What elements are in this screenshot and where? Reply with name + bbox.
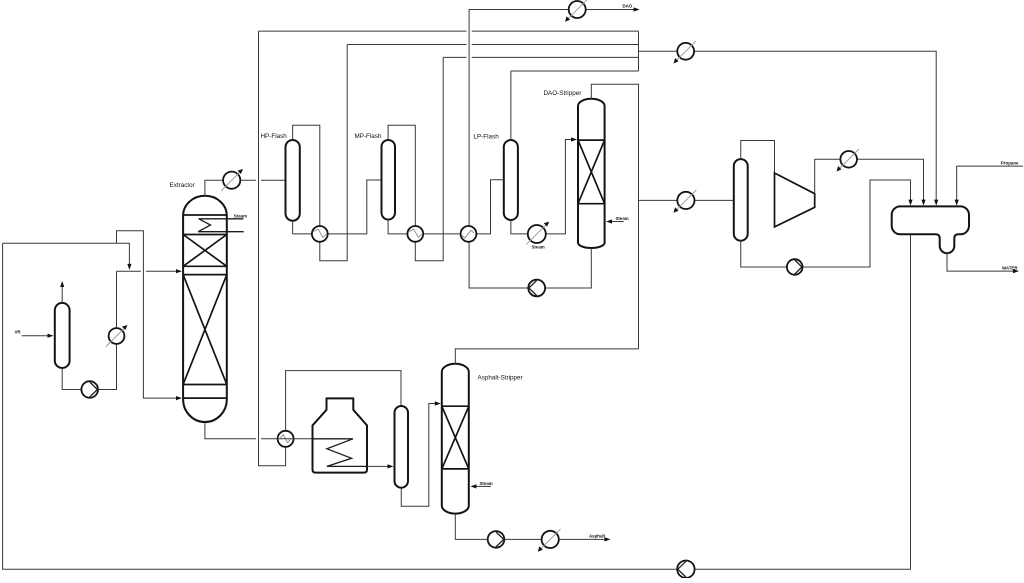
svg-text:Steam: Steam (234, 213, 247, 218)
vessel Extractor column (183, 196, 227, 422)
wire header line 2 (gap at x=469.1) (347, 44, 638, 46)
wire MP liquid to LP-Flash (388, 180, 504, 234)
svg-text:DAO: DAO (623, 4, 633, 9)
vessel LP-Flash drum (504, 140, 518, 220)
svg-text:HP-Flash: HP-Flash (261, 133, 288, 140)
vessel compressor suction drum (734, 159, 748, 241)
wire combined solvent vapor to separator (639, 51, 939, 205)
wire header line 4 (511, 70, 639, 72)
wire DAO-Stripper steam inlet (606, 219, 624, 223)
svg-text:Steam: Steam (532, 244, 545, 249)
component extractor internal steam coil with stubs (198, 219, 244, 232)
wire LP vapor riser to header 4 (510, 71, 512, 140)
wire jog over to extractor lower feed (117, 231, 183, 401)
vessel asphalt flash drum (395, 406, 409, 488)
heat-exchanger C12 asphalt cooler (538, 529, 561, 552)
wire solvent vapor vertical x=258.5 to asphalt-drum exchanger (259, 31, 402, 466)
wire suction drum overhead to compressor (741, 141, 775, 174)
wire solvent recycle loop left side and bottom (3, 234, 911, 569)
heat-exchanger C8 DAO product cooler (565, 0, 588, 22)
heat-exchanger C1 HP interchanger (312, 226, 328, 242)
vessel VR feed drum (55, 303, 70, 368)
heat-exchanger C4 LP steam heater (526, 222, 549, 245)
wire Asphalt-Stripper overhead to vapor header (455, 349, 638, 364)
compressor K1 (775, 173, 815, 227)
wire LP liquid through steam heater to DAO-Stripper feed (511, 137, 577, 234)
pump P1 VR pump (81, 381, 98, 398)
vessel DAO-Stripper column (578, 99, 605, 248)
wire extractor overhead to HP-Flash (gap at x=258.5) (205, 180, 286, 196)
svg-text:DAO-Stripper: DAO-Stripper (544, 90, 582, 97)
wire VR feed line (22, 334, 54, 338)
wire header bus vertical (638, 31, 640, 71)
wire furnace outlet to asphalt flash drum (367, 464, 394, 468)
vessel HP-Flash drum (286, 140, 300, 221)
heat-exchanger C5 asphalt drum vapor vs extractor bottoms (278, 431, 294, 447)
wire HP liquid to MP-Flash (293, 180, 382, 234)
wire propane makeup into separator (955, 166, 1023, 206)
wire Asphalt-Stripper steam inlet (470, 484, 491, 488)
svg-text:LP-Flash: LP-Flash (474, 133, 500, 140)
wire extractor feed 1 horizontal (gap at x=143.4) (117, 269, 183, 273)
svg-text:Extractor: Extractor (170, 182, 195, 189)
pump P5 recycle pump (677, 561, 694, 578)
wire VR drum bottom to pump (62, 368, 81, 390)
component Furnace (313, 398, 368, 472)
wire VR drum vent with up arrow (60, 281, 64, 303)
wire extractor bottoms through interchanger into furnace (205, 423, 313, 439)
vessel Asphalt-Stripper column (442, 364, 469, 514)
heat-exchanger C10 vapor cooler (674, 190, 697, 213)
wire Asphalt-Stripper bottoms through pump and cooler to product (455, 514, 610, 542)
wire MP vapor overhead down into exchanger (388, 125, 415, 226)
wire pump discharge up through heater to extractor feed level (98, 271, 117, 389)
heat-exchanger C9 solvent condenser (674, 41, 697, 64)
pump P2 DAO product pump (528, 280, 545, 297)
wire DAO product arrow (634, 7, 640, 11)
wire HP vapor overhead down into exchanger (293, 125, 320, 226)
wire DAO-Stripper overhead to compressor train (591, 84, 638, 349)
pump P4 drum bottoms pump (787, 259, 803, 275)
svg-text:WATER: WATER (1002, 266, 1018, 271)
wire recycle top run with join arrow into feed 1 (3, 243, 132, 270)
heat-exchanger C3 DAO product interchanger (461, 226, 477, 242)
svg-text:VR: VR (15, 330, 22, 335)
wire asphalt drum bottoms to Asphalt-Stripper (401, 401, 441, 506)
svg-text:MP-Flash: MP-Flash (355, 133, 382, 140)
svg-text:Steam: Steam (616, 216, 629, 221)
component furnace coil (313, 439, 368, 467)
heat-exchanger C6 extractor overhead heater (221, 169, 243, 191)
wire MP exchanger under-route up to header 3 (415, 57, 443, 260)
vessel MP-Flash drum (382, 140, 396, 220)
heat-exchanger C7 VR heater (106, 325, 128, 347)
heat-exchanger C11 compressor aftercooler (837, 149, 860, 172)
wire compressor discharge through cooler to separator (815, 159, 926, 205)
svg-text:Steam: Steam (480, 481, 493, 486)
wire suction drum bottoms through pump to separator (741, 180, 913, 267)
wire water outlet from boot (947, 253, 1019, 273)
wire vapor line to suction drum (639, 199, 734, 201)
wire header line 3 (gap at x=469.1) (443, 56, 638, 58)
wire DAO-Stripper bottoms through pump and interchanger to DAO cooler (469, 10, 634, 289)
svg-text:Propane: Propane (1001, 161, 1019, 166)
wire header line 1 (gap at x=469.1) (259, 30, 639, 32)
svg-text:Asphalt-Stripper: Asphalt-Stripper (478, 374, 523, 381)
pump P3 asphalt pump (488, 531, 505, 548)
heat-exchanger C2 MP interchanger (407, 226, 423, 242)
svg-text:Asphalt: Asphalt (589, 534, 606, 539)
vessel solvent separator drum with water boot (892, 206, 969, 253)
wire HP exchanger under-route up to header 2 (320, 45, 347, 261)
